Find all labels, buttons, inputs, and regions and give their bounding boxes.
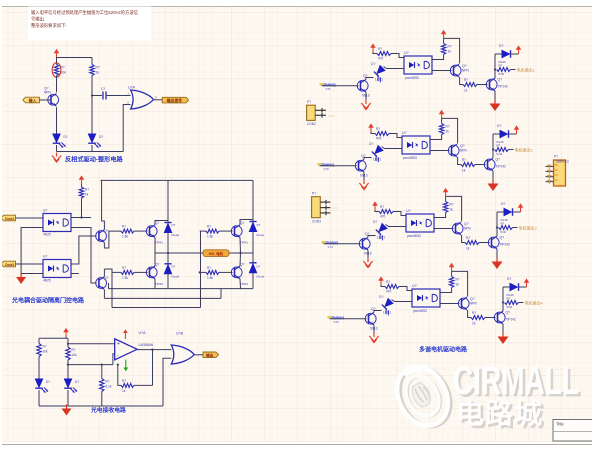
ground ch2 right	[488, 180, 499, 192]
wire Q1 emitter down	[56, 107, 58, 133]
wire collector to LED	[368, 236, 376, 238]
diode D6	[249, 263, 256, 273]
motor node row	[155, 252, 203, 254]
svg-text:pwm3053: pwm3053	[405, 76, 419, 80]
svg-text:D?: D?	[373, 220, 377, 224]
wire port1 to opto1	[16, 217, 44, 219]
transistor Q3a 9013	[359, 237, 370, 250]
svg-text:5.1k: 5.1k	[106, 385, 112, 389]
wire Q5 emitter	[103, 290, 105, 299]
svg-text:D?: D?	[99, 135, 103, 139]
svg-text:VT4: VT4	[334, 320, 340, 324]
wire diode to VCC	[513, 211, 521, 213]
port output2	[203, 352, 219, 358]
svg-text:U?: U?	[43, 209, 47, 213]
wire collector to LED	[374, 311, 382, 313]
transistor Q5 driver	[96, 277, 107, 290]
svg-text:U?A: U?A	[128, 86, 136, 90]
svg-text:R?: R?	[464, 78, 468, 82]
transistor Q4 driver	[96, 230, 107, 243]
resistor R1d 51R	[497, 68, 511, 72]
resistor R3c 1k	[465, 241, 479, 245]
optocoupler U1b 4N25	[404, 56, 432, 74]
wire top rail	[57, 57, 93, 59]
svg-text:1: 1	[127, 91, 129, 95]
wire LB collector to node row	[154, 253, 156, 266]
svg-text:输入电平信号经过预处理产生幅值为工位520Hz的方波信: 输入电平信号经过预处理产生幅值为工位520Hz的方波信	[31, 9, 139, 16]
text note block	[28, 7, 151, 41]
optocoupler U2b 4N25	[402, 136, 430, 154]
LED D2a indicator	[369, 145, 386, 162]
transistor Q2a 9013	[355, 159, 366, 172]
svg-text:Q?: Q?	[155, 262, 159, 266]
transistor Q4b NPN	[458, 297, 469, 310]
svg-text:TIP142: TIP142	[506, 318, 517, 322]
svg-text:U?: U?	[406, 209, 411, 213]
svg-text:CIRMALL: CIRMALL	[453, 359, 579, 403]
error marker around R1	[52, 63, 61, 77]
resistor R11 feedback	[134, 384, 153, 386]
wire RB emitter down	[239, 279, 242, 289]
wire gate output	[154, 99, 162, 101]
wire opto pin3 to Q base	[440, 303, 460, 305]
wire diode to VCC	[509, 133, 517, 135]
svg-text:470: 470	[380, 215, 386, 219]
wire R to opto pin1	[393, 212, 406, 216]
wire power Q emitter to ground	[492, 171, 494, 183]
svg-text:1k: 1k	[448, 50, 452, 54]
flyback diode D4b	[503, 286, 510, 288]
power VCC ch4 right	[524, 278, 530, 287]
svg-text:U?: U?	[412, 284, 417, 288]
wire R5 to Q7 base	[134, 271, 148, 273]
connector P2 CON3	[312, 197, 321, 218]
wire opto cathodes common	[21, 228, 43, 274]
power VCC ch1 left	[370, 43, 376, 52]
watermark logo	[387, 357, 460, 437]
svg-text:D?: D?	[172, 264, 176, 268]
power VCC ch4 mid	[449, 263, 455, 272]
svg-text:VT2: VT2	[324, 167, 330, 171]
svg-text:1k: 1k	[446, 130, 450, 134]
power VCC ch3 left	[372, 201, 378, 210]
power VCC2	[79, 175, 85, 184]
svg-text:1.5k: 1.5k	[122, 276, 128, 280]
svg-text:VT1: VT1	[326, 87, 332, 91]
ground ch4 left	[369, 333, 378, 343]
resistor R7 1.5k	[206, 270, 219, 274]
diode D4	[167, 253, 169, 264]
svg-text:Diode: Diode	[257, 233, 265, 237]
svg-text:D?: D?	[501, 202, 505, 206]
transistor Q2c TIP142	[484, 158, 495, 171]
svg-text:D?: D?	[75, 380, 79, 384]
net label PWM2	[318, 163, 322, 165]
wire opto pin3 to Q base	[432, 70, 452, 72]
title block	[553, 420, 594, 442]
wire R out	[511, 69, 516, 71]
wire RT emitter to node	[239, 238, 242, 254]
wire vcc node	[452, 271, 468, 296]
ground GND3	[66, 406, 68, 409]
power VCC ch1 mid	[441, 30, 447, 39]
svg-text:Q?: Q?	[506, 311, 511, 315]
svg-text:Diode: Diode	[257, 274, 265, 278]
svg-text:Title: Title	[556, 422, 564, 427]
wire opto1 pin4 row	[71, 217, 91, 219]
svg-text:U?: U?	[43, 255, 47, 259]
svg-text:TIP41: TIP41	[155, 241, 163, 245]
svg-text:R?: R?	[207, 266, 211, 270]
net label PWM3	[322, 241, 326, 243]
power VCC1	[54, 49, 60, 58]
wire R to opto pin1	[391, 54, 404, 58]
diode D5	[249, 222, 256, 232]
wire rail to gate pin2	[123, 105, 130, 152]
svg-text:R?: R?	[72, 348, 76, 352]
LED D7 receiver	[35, 379, 48, 393]
wire R out	[509, 149, 514, 151]
motor load	[203, 250, 229, 257]
wire R to power Q base	[477, 84, 488, 86]
wire vcc node	[442, 118, 458, 143]
svg-text:R?: R?	[456, 278, 460, 282]
svg-text:R?: R?	[122, 266, 126, 270]
power VCC3	[63, 328, 69, 337]
svg-text:NPN: NPN	[460, 149, 467, 153]
wire minus input row	[68, 364, 113, 366]
transistor Q9 bridge RB	[231, 266, 242, 279]
svg-text:1k: 1k	[122, 389, 126, 393]
svg-text:D?: D?	[369, 142, 373, 146]
wire R4 to Q6 base	[134, 230, 148, 232]
wire bottom rail	[57, 151, 124, 153]
svg-text:Q?: Q?	[240, 221, 244, 225]
svg-text:1k: 1k	[466, 247, 470, 251]
ground GND2	[16, 273, 26, 284]
svg-text:4N25: 4N25	[43, 279, 51, 283]
ground GND1	[52, 153, 61, 163]
power VCC ch3 right	[518, 203, 524, 212]
resistor R4b 1k	[451, 271, 453, 276]
svg-text:Q?: Q?	[462, 64, 467, 68]
svg-text:10k: 10k	[72, 353, 78, 357]
LED D4a indicator	[379, 298, 396, 315]
svg-text:电机输出3: 电机输出3	[519, 224, 538, 230]
port input signal	[23, 97, 40, 103]
svg-text:470: 470	[386, 290, 392, 294]
optocoupler U3 4N25	[43, 260, 71, 278]
svg-text:输出: 输出	[206, 353, 214, 358]
top rail	[65, 337, 67, 339]
svg-text:LED1: LED1	[373, 158, 381, 162]
resistor R3b 1k	[445, 196, 447, 201]
wire vcc node	[446, 196, 462, 221]
svg-text:VCC: VCC	[332, 206, 339, 210]
wire R to opto pin1	[389, 134, 402, 138]
wire R to opto pin1	[399, 287, 412, 291]
wire diode down to node row	[167, 233, 169, 254]
transistor Q4a 9013	[365, 312, 376, 325]
wire collector vertical	[502, 287, 504, 311]
svg-text:C?: C?	[101, 87, 105, 91]
wire collector vertical	[492, 134, 494, 158]
power VCC ch2 right	[514, 125, 520, 134]
svg-text:R?: R?	[380, 205, 384, 209]
wire Q4 emitter to left-top base row	[104, 231, 121, 248]
svg-text:R?: R?	[378, 47, 382, 51]
wire LED2 to rail	[91, 145, 93, 152]
svg-text:R?: R?	[43, 345, 47, 349]
wire Q2a emitter to ground	[363, 172, 365, 181]
svg-text:Q?: Q?	[155, 221, 159, 225]
resistor R10 5.1k	[101, 365, 103, 379]
svg-text:51R: 51R	[499, 72, 505, 76]
resistor R4a 470	[385, 285, 399, 289]
svg-text:D?: D?	[257, 264, 261, 268]
connector P3 pins	[546, 167, 554, 182]
svg-text:号输出.: 号输出.	[31, 16, 45, 23]
transistor Q4c TIP142	[494, 311, 505, 324]
resistor R2 1k	[90, 65, 94, 76]
svg-text:U?: U?	[404, 51, 409, 55]
svg-text:51R: 51R	[507, 305, 513, 309]
ground ch3 left	[363, 258, 372, 268]
svg-text:TIP41: TIP41	[240, 241, 248, 245]
wire input ch1	[322, 85, 359, 87]
svg-text:10k: 10k	[43, 350, 49, 354]
resistor R2c 1k	[461, 163, 475, 167]
wire rail to R2	[91, 58, 93, 65]
svg-text:R?: R?	[106, 380, 110, 384]
right-bottom base row	[200, 271, 206, 273]
svg-text:4N25: 4N25	[43, 233, 51, 237]
svg-text:1.5k: 1.5k	[207, 276, 213, 280]
svg-text:R?: R?	[96, 66, 100, 70]
wire LED2 to rail	[67, 390, 69, 406]
wire opto pin4 to R	[430, 135, 442, 140]
wire opto pin4 to R	[432, 55, 444, 60]
svg-text:电路城: 电路城	[456, 398, 543, 429]
svg-text:1k: 1k	[96, 71, 100, 75]
wire Q5 collector	[103, 269, 105, 276]
svg-text:R?: R?	[497, 144, 501, 148]
svg-text:10k: 10k	[61, 71, 67, 75]
svg-text:LED1: LED1	[375, 78, 383, 82]
svg-text:D?: D?	[379, 295, 383, 299]
svg-text:R?: R?	[85, 188, 89, 192]
transistor Q1c TIP142	[486, 78, 497, 91]
watermark text 电路城	[456, 398, 546, 432]
port output signal	[162, 97, 188, 103]
wire node to LED2	[91, 96, 93, 134]
wire opto2 pin3 stub	[71, 273, 79, 275]
power VCC ch4 left	[378, 276, 384, 285]
svg-text:LM358AN: LM358AN	[139, 343, 154, 347]
svg-text:51R: 51R	[497, 152, 503, 156]
ground ch1 right	[490, 100, 501, 112]
wire R to power Q base	[485, 317, 496, 319]
connector P3 Header4	[554, 160, 566, 186]
wire R10 to rail	[101, 392, 103, 407]
wire opto pin3 to Q base	[430, 150, 450, 152]
wire to ground	[20, 274, 22, 277]
resistor R1 10k	[54, 65, 58, 76]
svg-text:R?: R?	[450, 203, 454, 207]
svg-text:R?: R?	[448, 45, 452, 49]
wire R out	[519, 302, 524, 304]
svg-text:Q?: Q?	[500, 236, 505, 240]
wire R2 to node	[91, 76, 93, 96]
power VCC ch2 left	[368, 123, 374, 132]
svg-text:470: 470	[376, 137, 382, 141]
svg-text:Dout1: Dout1	[5, 217, 14, 221]
power VCC ch3 mid	[443, 188, 449, 197]
LED D8 receiver	[64, 379, 77, 393]
transistor Q1b NPN	[450, 64, 461, 77]
net label PWM4	[328, 316, 332, 318]
wire gate in2	[163, 358, 171, 406]
svg-text:Q?: Q?	[104, 276, 108, 280]
resistor R4 1.5k	[121, 229, 134, 233]
ground ch4 right	[498, 333, 509, 345]
svg-text:2: 2	[127, 100, 129, 104]
svg-text:R?: R?	[499, 64, 503, 68]
svg-text:1.5k: 1.5k	[122, 235, 128, 239]
wire power Q emitter to ground	[502, 324, 504, 336]
svg-text:R?: R?	[446, 125, 450, 129]
wire opto pin3 to Q base	[434, 228, 454, 230]
LED D1a indicator	[371, 65, 388, 82]
svg-text:Q?: Q?	[460, 144, 465, 148]
wire gate output	[195, 354, 204, 356]
svg-text:光电耦合驱动隔离门控电路: 光电耦合驱动隔离门控电路	[11, 297, 85, 305]
wire vcc to R	[375, 210, 379, 212]
resistor R8 10k	[38, 338, 40, 343]
svg-text:R?: R?	[462, 158, 466, 162]
svg-text:CON2: CON2	[307, 122, 316, 126]
svg-text:D?: D?	[257, 223, 261, 227]
resistor R4c 1k	[471, 316, 485, 320]
svg-text:U?: U?	[402, 131, 407, 135]
transistor Q1 NPN	[48, 93, 59, 106]
wire R8 to LED	[38, 357, 40, 379]
svg-text:TIP142: TIP142	[498, 85, 509, 89]
wire LED to opto pin2	[384, 67, 405, 69]
svg-text:Q?: Q?	[240, 262, 244, 266]
resistor R3 1k	[81, 184, 83, 187]
wire feedback to minus row	[118, 365, 121, 386]
wire input ch4	[330, 318, 367, 320]
svg-text:TIP42: TIP42	[155, 282, 163, 286]
svg-text:整形波形要求如下:: 整形波形要求如下:	[31, 22, 67, 29]
wire opto1 pin3 to driver Q5 base	[71, 228, 97, 284]
resistor R2a 470	[375, 132, 389, 136]
transistor Q3c TIP142	[488, 236, 499, 249]
or-gate U1A	[131, 90, 154, 109]
svg-text:Q?: Q?	[104, 229, 108, 233]
svg-text:R?: R?	[386, 280, 390, 284]
svg-text:Q?: Q?	[496, 158, 501, 162]
svg-text:TIP142: TIP142	[500, 243, 511, 247]
bottom row 3	[112, 307, 201, 309]
svg-text:51R: 51R	[501, 230, 507, 234]
svg-text:Dout2: Dout2	[5, 263, 14, 267]
svg-text:D?: D?	[371, 62, 375, 66]
wire vcc node	[444, 38, 460, 63]
svg-text:多谐电机驱动电路: 多谐电机驱动电路	[419, 346, 468, 354]
svg-text:R?: R?	[207, 225, 211, 229]
wire collector to LED	[364, 158, 372, 160]
wire emitter to R	[460, 77, 463, 85]
transistor Q8 bridge RT	[231, 225, 242, 238]
wire R1 to Q1 collector	[56, 76, 58, 93]
svg-text:470: 470	[378, 57, 384, 61]
wire port to base	[39, 99, 51, 101]
connector P1 CON2	[307, 105, 316, 120]
power VCC ch2 mid	[439, 110, 445, 119]
svg-text:电机输出2: 电机输出2	[515, 146, 534, 152]
svg-text:R?: R?	[507, 297, 511, 301]
ground ch1 left	[361, 100, 370, 110]
ground ch2 left	[359, 180, 368, 190]
right rail vertical	[252, 180, 254, 288]
wire collector to LED	[366, 78, 374, 80]
wire vcc to R	[371, 132, 375, 134]
wire diode to VCC	[511, 53, 519, 55]
wire C1 to gate pin1	[106, 95, 131, 97]
flyback diode D1b	[495, 53, 502, 55]
wire opto pin4 to R	[434, 213, 446, 218]
svg-text:D?: D?	[497, 124, 501, 128]
svg-text:1k: 1k	[456, 283, 460, 287]
svg-text:输入: 输入	[29, 98, 37, 103]
svg-text:Q?: Q?	[464, 222, 469, 226]
svg-text:P?: P?	[307, 100, 311, 104]
connector P1 pins	[315, 108, 326, 118]
svg-text:pwm3053: pwm3053	[407, 234, 421, 238]
resistor R1b 1k	[443, 38, 445, 43]
flyback diode D3b	[497, 211, 504, 213]
connector P2 pins	[320, 200, 330, 215]
svg-text:NPN: NPN	[470, 302, 477, 306]
wire LT collector	[155, 221, 168, 225]
svg-text:R?: R?	[472, 311, 476, 315]
svg-text:R?: R?	[501, 222, 505, 226]
wire R3 to opto1 out	[81, 198, 83, 218]
svg-text:U?A: U?A	[139, 331, 147, 335]
wire vcc to R	[373, 52, 377, 54]
op-amp U4A LM358AN	[115, 339, 138, 360]
wire port2 to opto2	[16, 263, 44, 265]
resistor R6 1.5k	[206, 229, 219, 233]
wire diode D4 down	[167, 274, 169, 289]
wire Q4a emitter to ground	[373, 325, 375, 334]
svg-text:电机输出1: 电机输出1	[517, 66, 536, 72]
wire rail to driver collector	[102, 180, 105, 229]
transistor Q3b NPN	[452, 222, 463, 235]
wire power Q emitter to ground	[496, 249, 498, 261]
capacitor C1	[103, 92, 106, 100]
wire R to power Q base	[479, 242, 490, 244]
watermark text CIRMALL	[453, 359, 581, 406]
svg-text:Q?: Q?	[498, 78, 503, 82]
svg-text:LED1: LED1	[377, 236, 385, 240]
svg-text:R?: R?	[466, 236, 470, 240]
resistor R5 1.5k	[104, 269, 121, 272]
transistor Q2b NPN	[448, 144, 459, 157]
svg-text:U?B: U?B	[176, 332, 184, 336]
